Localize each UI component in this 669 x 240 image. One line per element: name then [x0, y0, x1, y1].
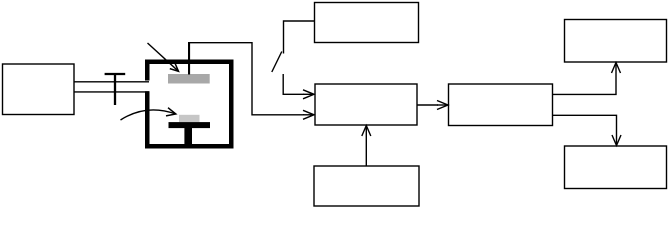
- arrowhead up into middle box bottom: [362, 126, 371, 137]
- pedestal stem: [184, 128, 192, 145]
- chamber wall bottom: [145, 144, 234, 149]
- chamber wall right: [229, 60, 234, 149]
- wire: bottom box up to middle box: [365, 126, 367, 166]
- box: middle (RF generator): [315, 84, 417, 125]
- box: bottom-right (recorder): [565, 146, 667, 189]
- valve symbol on gas line: [105, 73, 126, 105]
- electrode stem through chamber top: [188, 42, 190, 75]
- box: bottom (controller): [314, 166, 419, 206]
- arrowhead up into top-right box: [612, 63, 621, 74]
- arrow: curved pointer to substrate: [121, 108, 176, 120]
- box: DC source (top): [315, 3, 419, 43]
- wire: right box to top-right box: [553, 73, 617, 94]
- substrate (light gray, on pedestal): [179, 115, 200, 122]
- arrowhead down into bottom-right box: [612, 135, 621, 146]
- arrowhead into middle box (lower input): [303, 110, 314, 119]
- chamber wall left upper segment: [145, 60, 150, 81]
- box: right (amplifier): [449, 84, 553, 126]
- wire: right box to bottom-right box: [553, 115, 617, 135]
- arrowhead into right box: [437, 101, 448, 110]
- wire: upper gas tube line: [74, 81, 149, 83]
- wire: lower gas tube line: [74, 91, 149, 93]
- switch lower contact wire into middle box: [283, 74, 304, 94]
- box: gas supply (left): [3, 64, 75, 115]
- switch blade (open): [272, 52, 282, 73]
- target electrode (gray, top of chamber): [168, 74, 210, 84]
- wire: middle box to right box: [417, 104, 438, 106]
- arrowhead into middle box (upper input): [303, 90, 314, 99]
- chamber wall top: [145, 60, 234, 65]
- chamber wall left lower segment: [145, 91, 150, 148]
- pedestal top bar: [169, 122, 211, 128]
- box: top-right (display): [565, 20, 667, 63]
- arrow: diagonal pointer to target: [148, 43, 179, 71]
- wire: top box to switch upper contact: [284, 21, 315, 54]
- wire: electrode to matching network (up, right, down): [189, 43, 304, 115]
